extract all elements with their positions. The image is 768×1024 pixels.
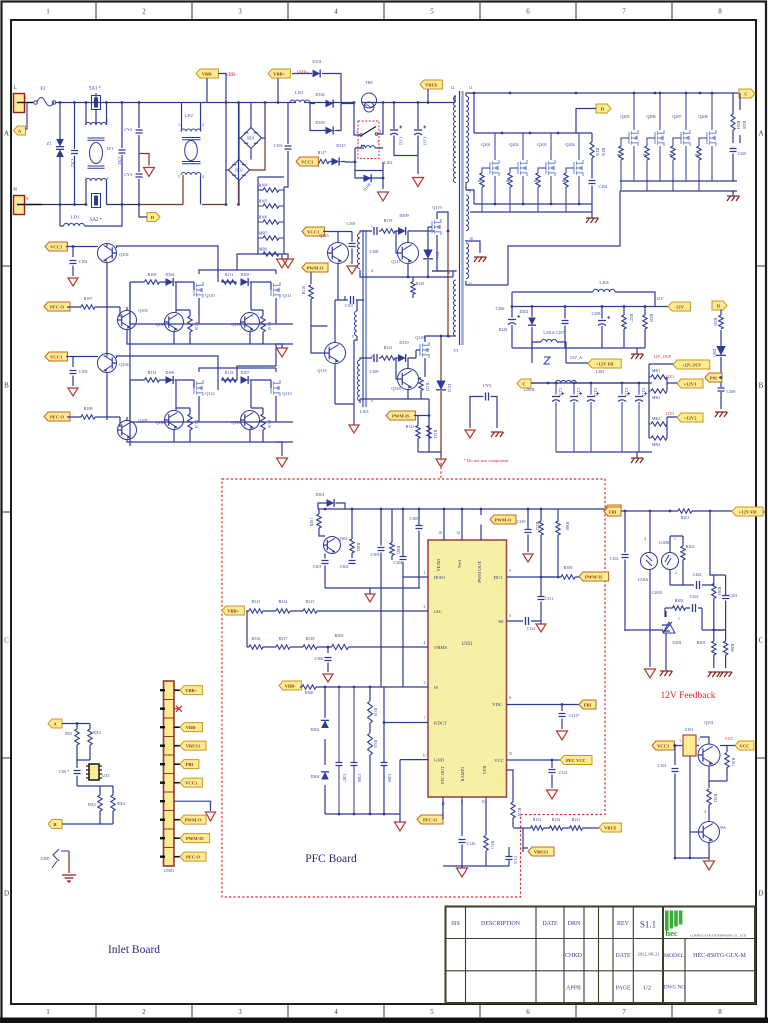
svg-text:VBB+: VBB+: [185, 688, 197, 693]
svg-text:R110: R110: [194, 322, 198, 330]
svg-text:A: A: [758, 130, 763, 138]
diode D304: [321, 772, 329, 780]
svg-text:SA1 *: SA1 *: [89, 87, 102, 92]
cap C314: [549, 770, 556, 773]
wire r204 tail: [713, 599, 715, 631]
svg-text:4: 4: [334, 1008, 338, 1016]
resistor MR1: [651, 375, 667, 379]
svg-text:VCC1: VCC1: [307, 229, 320, 234]
wire T1 pin12 top: [455, 96, 456, 103]
svg-text:DWG NO: DWG NO: [664, 985, 685, 991]
junction u9a: [689, 857, 692, 860]
svg-text:C212: C212: [593, 388, 597, 396]
resistor R321: [368, 733, 373, 755]
choke LF1: [86, 122, 107, 125]
gate resistor Q203: [536, 173, 540, 187]
svg-text:R202: R202: [686, 544, 695, 549]
svg-text:R201: R201: [681, 515, 690, 520]
svg-text:L203: L203: [599, 280, 609, 285]
svg-text:A: A: [4, 130, 9, 138]
junction dots top rail: [59, 101, 62, 104]
svg-text:1o: 1o: [423, 754, 427, 758]
flag D right: [712, 301, 727, 310]
junction P01: [720, 376, 723, 379]
flag VBB- un01: [174, 726, 180, 728]
svg-text:Q204: Q204: [565, 142, 575, 147]
svg-text:+12V FB: +12V FB: [596, 361, 613, 366]
mosfet Q110: [194, 282, 203, 298]
svg-text:C: C: [522, 381, 525, 386]
transistor Q101: [698, 744, 720, 766]
svg-text:VBUS: VBUS: [604, 825, 617, 830]
svg-text:+12V_OCP: +12V_OCP: [682, 363, 701, 367]
ground right bank: [727, 196, 740, 201]
wire pfc bottom bus: [325, 813, 400, 815]
wire D102 D103 net: [310, 104, 354, 131]
svg-text:C309: C309: [387, 774, 391, 782]
ground CY5 left: [465, 430, 475, 438]
ground C105: [68, 388, 78, 396]
resistor R204: [712, 584, 716, 599]
cap C313: [559, 714, 566, 717]
svg-text:3: 3: [424, 681, 426, 685]
wire MR1-3 join: [649, 377, 677, 391]
gate resistor Q201: [480, 173, 484, 187]
cap C113: [414, 129, 422, 131]
relay switch: [361, 127, 377, 137]
resistor R124: [427, 426, 431, 439]
ground D column: [715, 412, 728, 417]
wire VBB+ stem: [278, 74, 312, 103]
cap C212: [587, 396, 595, 398]
svg-text:U10B: U10B: [659, 540, 669, 545]
cap C316: [459, 840, 466, 843]
wire gnd pin run: [400, 760, 428, 814]
svg-text:R114: R114: [194, 420, 198, 428]
svg-text:D110: D110: [399, 340, 408, 345]
wires cell Q112 sources: [130, 380, 293, 422]
mosfet Q112: [194, 380, 203, 396]
ground pfc bus: [395, 822, 406, 831]
flag PWM-O drv: [302, 263, 328, 272]
choke LF2: [181, 129, 201, 132]
svg-text:R124: R124: [433, 430, 437, 438]
svg-text:Q104: Q104: [119, 362, 129, 367]
junction D101: [277, 101, 280, 104]
ground T1 pin10: [474, 257, 487, 262]
wire c315: [508, 847, 510, 866]
svg-text:L103: L103: [360, 409, 369, 414]
wire gnd left bank stem: [591, 212, 593, 218]
wire LF2 risers: [182, 103, 201, 205]
svg-text:C107: C107: [345, 303, 354, 308]
wire T1 pin9: [466, 182, 470, 190]
svg-text:6: 6: [509, 696, 511, 700]
svg-text:R121: R121: [384, 345, 393, 350]
svg-text:R153: R153: [533, 817, 542, 822]
junction is row: [324, 686, 327, 689]
wire ux1 down: [100, 786, 113, 795]
wire relay left leg: [345, 148, 355, 162]
wire r308: [541, 509, 558, 577]
svg-text:D304: D304: [311, 774, 320, 779]
flag A inlet: [48, 719, 62, 728]
svg-text:5: 5: [178, 175, 180, 179]
junction source bus: [494, 203, 497, 206]
wire c301: [325, 554, 428, 589]
node A flag: [14, 126, 26, 135]
svg-text:D101: D101: [312, 59, 321, 64]
flag PFC-O un01: [174, 856, 180, 858]
wire rail to bridge: [181, 103, 292, 205]
wire u201 wires: [625, 611, 726, 667]
wire c314 gnd: [551, 775, 553, 789]
svg-text:C316: C316: [467, 841, 476, 846]
svg-text:2: 2: [142, 1008, 146, 1016]
svg-text:R203: R203: [675, 598, 684, 603]
svg-text:Q120: Q120: [415, 335, 424, 340]
junction d112: [440, 335, 443, 338]
junction vdc: [561, 703, 564, 706]
svg-text:GND: GND: [40, 856, 49, 861]
svg-text:VBB+: VBB+: [273, 71, 285, 76]
wire q115 top: [323, 232, 352, 243]
svg-text:PWM-O: PWM-O: [307, 265, 324, 270]
svg-text:L201A: L201A: [543, 330, 554, 335]
svg-text:CY3: CY3: [124, 172, 132, 177]
cap C315: [506, 857, 513, 860]
flag VBUS right: [599, 823, 621, 832]
svg-text:2: 2: [424, 605, 426, 609]
wire C207 leads: [564, 307, 566, 349]
svg-text:hec: hec: [665, 928, 678, 938]
wire d111: [427, 231, 429, 277]
flag PWM-IS un01: [174, 837, 180, 839]
svg-text:Q106: Q106: [155, 322, 164, 327]
junction q101: [674, 744, 677, 747]
ground pfc top net: [365, 594, 375, 602]
svg-text:15: 15: [508, 752, 512, 756]
svg-text:SA2 *: SA2 *: [90, 218, 103, 223]
svg-text:C102: C102: [610, 556, 619, 561]
wire CY5 legs: [470, 397, 497, 429]
wire fb bottom rail: [625, 630, 726, 631]
svg-text:D302: D302: [311, 727, 320, 732]
wire r301: [319, 509, 325, 536]
svg-text:CY5: CY5: [483, 383, 492, 388]
wire top rail pfc: [318, 509, 558, 540]
svg-text:R317: R317: [279, 636, 288, 641]
wire R224 wires: [733, 93, 740, 143]
wire d301 loop: [318, 503, 345, 509]
svg-text:R302: R302: [356, 543, 360, 551]
ground 12V bus: [631, 458, 644, 463]
wire T1 pin5: [448, 335, 456, 337]
svg-text:D: D: [758, 890, 763, 898]
svg-text:VBUS1: VBUS1: [534, 849, 549, 854]
flag +12V2: [677, 413, 703, 422]
svg-text:C313*: C313*: [569, 713, 580, 718]
title block table: [446, 907, 756, 1004]
flag VCC1 pwm: [302, 227, 324, 236]
svg-text:C307: C307: [342, 774, 346, 782]
wire gnd right bank stem: [732, 191, 734, 196]
svg-text:VCC1: VCC1: [301, 159, 314, 164]
svg-text:5: 5: [430, 8, 434, 16]
svg-text:D106: D106: [166, 370, 175, 375]
wire r311 leads: [485, 797, 487, 866]
svg-text:R309: R309: [564, 565, 573, 570]
svg-text:R226: R226: [742, 121, 746, 129]
gate resistor Q202: [508, 173, 512, 187]
wire u9a wires: [675, 818, 709, 860]
svg-text:7: 7: [622, 1008, 626, 1016]
svg-text:R312: R312: [535, 522, 539, 530]
svg-text:R104: R104: [259, 183, 268, 188]
svg-text:L202: L202: [596, 369, 604, 374]
svg-text:VBB-: VBB-: [225, 73, 237, 78]
wire LD1 loop: [60, 205, 122, 227]
svg-text:LD1: LD1: [71, 215, 80, 220]
wire r310: [507, 770, 514, 827]
svg-text:R151: R151: [572, 817, 581, 822]
svg-text:VCC1: VCC1: [185, 780, 198, 785]
wire q120 leads: [416, 336, 448, 377]
flag D inlet: [147, 213, 160, 222]
resistor R320: [368, 701, 373, 723]
wire gnd 12V stem: [636, 452, 638, 458]
svg-text:C310: C310: [517, 519, 526, 524]
gate resistor Q208: [697, 146, 701, 160]
gate resistor Q204: [564, 173, 568, 187]
flag VBUS1 un01: [174, 745, 180, 747]
svg-text:C209: C209: [727, 389, 736, 394]
svg-text:N: N: [13, 188, 17, 193]
wire c305: [418, 509, 420, 588]
svg-text:12V2: 12V2: [666, 411, 675, 416]
wire vdc pin: [507, 705, 580, 712]
svg-text:R204: R204: [717, 587, 721, 595]
wire D202 leads: [531, 307, 533, 349]
svg-text:Z1: Z1: [46, 141, 52, 146]
ground fb4: [720, 672, 733, 677]
svg-text:6: 6: [526, 8, 530, 16]
wires cell Q112 drains: [199, 368, 276, 372]
svg-text:R225: R225: [713, 318, 717, 326]
ground relay: [378, 192, 389, 201]
cap C307: [336, 763, 343, 766]
svg-text:1: 1: [678, 617, 680, 621]
svg-text:8: 8: [718, 8, 722, 16]
svg-text:IAC: IAC: [434, 609, 442, 614]
wire fb gnd stems: [665, 667, 667, 671]
resistor R122: [419, 378, 423, 391]
junction right bank top: [633, 92, 636, 95]
mosfet Q111: [271, 282, 280, 298]
resistor R301: [317, 514, 321, 528]
svg-text:5: 5: [352, 335, 354, 339]
svg-text:R310: R310: [517, 808, 521, 816]
diode D111: [423, 250, 433, 259]
wire c106 gnd: [351, 249, 353, 265]
svg-text:IS: IS: [434, 685, 439, 690]
cap C109: [374, 354, 377, 362]
wire q117: [396, 231, 408, 277]
svg-text:MR6: MR6: [259, 247, 267, 252]
dashed stub above box: [440, 445, 442, 479]
svg-text:D107: D107: [241, 370, 250, 375]
flag VCC1 q101: [652, 741, 674, 750]
svg-text:D109: D109: [399, 213, 408, 218]
transistor Q106: [165, 313, 184, 332]
T1 secondary mid winding: [466, 195, 469, 231]
cap C213: [618, 396, 626, 398]
svg-text:PAGE: PAGE: [615, 986, 630, 992]
wire top rail: [56, 102, 182, 104]
svg-text:Q108: Q108: [155, 420, 164, 425]
wire 12V rail: [531, 382, 649, 384]
svg-text:VBB-: VBB-: [202, 71, 213, 76]
wire MR rail: [649, 364, 673, 438]
wire pwmo stem: [310, 272, 312, 284]
mosfet Q119: [432, 219, 441, 235]
wire C208 leads: [601, 307, 603, 349]
svg-text:Q109: Q109: [231, 420, 240, 425]
svg-text:RX1: RX1: [65, 731, 73, 736]
svg-text:12V_A: 12V_A: [570, 355, 582, 360]
svg-text:C210: C210: [558, 388, 562, 396]
wire vbus row: [513, 828, 599, 848]
wire r205 tail: [713, 630, 715, 668]
svg-text:DRN: DRN: [568, 921, 581, 927]
junction vcc1: [72, 245, 75, 248]
svg-text:Q118: Q118: [391, 386, 400, 391]
svg-text:R206: R206: [730, 644, 734, 652]
svg-text:L102: L102: [384, 160, 393, 165]
svg-text:R314: R314: [279, 599, 288, 604]
svg-text:LF2: LF2: [185, 113, 193, 118]
svg-text:Q203: Q203: [537, 142, 546, 147]
wire c102 col: [624, 511, 626, 630]
wire L201A wires: [532, 342, 566, 363]
junction rail right: [382, 101, 385, 104]
svg-text:CHKD: CHKD: [565, 953, 583, 959]
svg-text:R306: R306: [305, 690, 314, 695]
wire fb rail: [621, 510, 732, 512]
flag FB1: [579, 700, 596, 709]
ground fb3: [708, 672, 721, 677]
svg-text:C207: C207: [556, 330, 565, 335]
svg-text:Q116: Q116: [317, 368, 326, 373]
wire b row: [62, 811, 113, 824]
flag PFC-O ic: [417, 815, 443, 824]
wire d112 col: [440, 336, 442, 452]
svg-text:C305: C305: [410, 516, 419, 521]
cap C211: [570, 396, 578, 398]
L103 sec winding bottom: [357, 360, 360, 401]
wire ladder rails: [258, 177, 284, 254]
svg-text:VBB+: VBB+: [227, 608, 239, 613]
junction dc1: [540, 576, 543, 579]
svg-text:C308: C308: [357, 774, 361, 782]
wire q115 e join: [338, 253, 346, 300]
svg-text:IEAO: IEAO: [434, 575, 446, 580]
svg-text:16: 16: [438, 531, 442, 535]
wire L103 gnd: [353, 404, 355, 425]
svg-text:R115: R115: [225, 370, 234, 375]
svg-text:TH1: TH1: [365, 80, 373, 85]
gate resistor Q206: [645, 146, 649, 160]
svg-text:GND: GND: [434, 758, 445, 763]
svg-text:12V_OCP: 12V_OCP: [653, 354, 671, 359]
resistor R116: [261, 414, 265, 430]
svg-text:C315: C315: [513, 856, 517, 864]
svg-text:C314: C314: [559, 770, 568, 775]
wires Q107: [250, 310, 263, 344]
spark gap: [53, 849, 69, 861]
svg-text:C206: C206: [496, 306, 505, 311]
svg-text:T1: T1: [453, 348, 459, 353]
wire un01 pin7 gnd: [174, 801, 211, 811]
svg-text:R116: R116: [267, 420, 271, 428]
svg-text:PWM-O: PWM-O: [185, 817, 202, 822]
svg-text:R316: R316: [252, 636, 261, 641]
svg-text:1: 1: [679, 739, 681, 743]
wire relay bottom: [355, 162, 383, 178]
resistor R303: [390, 543, 394, 556]
svg-text:R320: R320: [373, 740, 377, 748]
svg-text:C109: C109: [370, 369, 379, 374]
cap CX1: [119, 150, 126, 153]
svg-text:UX1: UX1: [102, 773, 110, 778]
svg-text:B: B: [4, 382, 9, 390]
svg-text:1: 1: [371, 225, 373, 229]
svg-text:R215: R215: [595, 148, 599, 156]
ground C310: [523, 554, 533, 562]
svg-text:R308: R308: [565, 522, 569, 530]
flag VBUS1 pfc: [528, 847, 554, 856]
wire CY mid tap brown: [139, 154, 149, 166]
wire BD1 taps: [239, 103, 266, 160]
svg-text:C202: C202: [693, 572, 702, 577]
wire c107: [345, 300, 364, 404]
wire R229 leads: [512, 307, 645, 349]
flag PWM-IS ic: [579, 572, 609, 581]
svg-text:R105: R105: [259, 199, 268, 204]
wire VBB- stem: [207, 74, 226, 103]
svg-text:C103: C103: [274, 143, 283, 148]
resistor R110: [188, 316, 192, 332]
core mark Z: [544, 357, 550, 364]
ground -12V bus: [631, 354, 644, 359]
resistor R102: [707, 789, 711, 805]
top ruler ticks: [96, 3, 672, 19]
svg-text:VBB-: VBB-: [285, 683, 296, 688]
svg-text:R106: R106: [259, 215, 268, 220]
flag VBUS top: [420, 80, 442, 89]
wire D flag stem: [576, 109, 596, 134]
svg-text:R118: R118: [302, 286, 306, 294]
wire c202 link: [702, 511, 714, 585]
wire c104 gnd: [72, 266, 74, 277]
svg-text:PFC-O: PFC-O: [186, 854, 200, 859]
relay K101 dashed box: [358, 121, 379, 159]
wire fbi stem: [558, 508, 604, 510]
svg-text:C205: C205: [738, 151, 747, 156]
transistor Q117: [398, 243, 419, 264]
flag VBB+ un01: [174, 689, 180, 691]
wire gnd pfc top stem: [369, 588, 371, 594]
